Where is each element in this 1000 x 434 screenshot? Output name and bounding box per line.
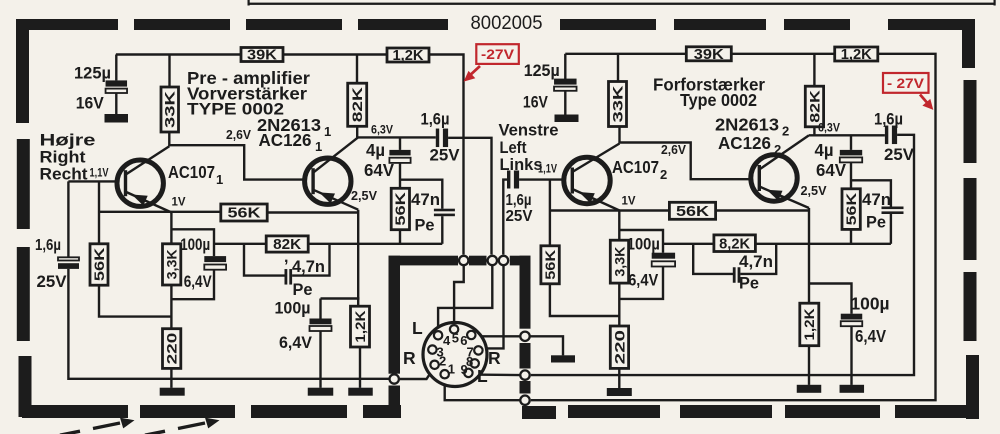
wire: rail to 82K vertical (right) <box>813 54 815 86</box>
wire: 125uF to ground (right) <box>564 91 566 115</box>
wire: pin 6 to feedthrough <box>476 335 520 337</box>
wire: 82K-h to emitter column (left) <box>308 243 359 245</box>
resistor 82K (left collector) <box>348 83 367 126</box>
wire: interstage coupling T3-T4 (right) <box>620 143 760 180</box>
resistor 220 (right) <box>610 326 628 368</box>
capacitor 100µ/6,4V (right mid) <box>652 253 675 267</box>
wire: node to 82K-h (left) <box>214 243 266 245</box>
wire: emitter column upper (left) <box>170 213 172 244</box>
resistor 220 (left) <box>163 329 181 369</box>
svg-text:R: R <box>488 348 501 368</box>
resistor 1,2K (left) <box>387 48 429 64</box>
wire: emitter rail T3 (right) <box>550 209 670 211</box>
wire: 47n branch (right) <box>851 180 891 206</box>
transistor AC107-1 <box>117 146 172 212</box>
svg-text:L: L <box>477 366 488 386</box>
svg-text:1,6µ: 1,6µ <box>506 192 532 209</box>
svg-text:4,7n: 4,7n <box>739 253 773 271</box>
DIN shield: right vertical bar <box>520 256 531 394</box>
svg-text:9: 9 <box>461 362 468 377</box>
wire: 33K to collector node <box>168 132 170 146</box>
svg-text:2,6V: 2,6V <box>226 128 252 142</box>
svg-text:33K: 33K <box>163 91 178 128</box>
capacitor 125µ/16V (left) <box>106 80 128 93</box>
svg-text:4µ: 4µ <box>815 140 834 160</box>
svg-text:1,2K: 1,2K <box>802 308 817 340</box>
wire: 1,2K to ground (left) <box>359 347 361 388</box>
transistor 2N2613/AC126-1 <box>305 137 359 209</box>
svg-text:AC126: AC126 <box>259 130 312 150</box>
svg-text:56K: 56K <box>393 192 408 226</box>
DIN shield: top edge <box>389 256 531 266</box>
svg-text:220: 220 <box>612 330 627 364</box>
wire: 220 to ground (left) <box>170 368 172 387</box>
svg-text:39K: 39K <box>694 47 725 63</box>
label 2N2613 (right) <box>715 115 789 139</box>
wire: 56K-T2 bottom (left) <box>399 230 401 244</box>
svg-text:1,6µ: 1,6µ <box>874 111 903 129</box>
wire: rail 1,2K to corner (right) <box>531 54 936 400</box>
power label -27V (left) <box>464 44 519 81</box>
svg-text:Venstre: Venstre <box>499 121 559 140</box>
feedthrough node right output <box>520 370 529 379</box>
svg-text:1,2K: 1,2K <box>393 48 425 64</box>
resistor 82K (right collector) <box>805 86 823 127</box>
svg-text:Type 0002: Type 0002 <box>680 90 757 110</box>
label AC126 (left) <box>259 130 323 154</box>
resistor 1,2K (left bottom) <box>351 306 370 347</box>
wire: 100µ tap upper (right) <box>619 230 663 253</box>
wire: 56K-T4 bottom (right) <box>850 229 852 243</box>
svg-text:8002005: 8002005 <box>471 12 543 34</box>
svg-text:16V: 16V <box>76 95 104 113</box>
annotation arrow 2 <box>145 418 220 434</box>
wire: 56K-h to T2 emitter (left) <box>267 211 358 213</box>
svg-text:4: 4 <box>443 333 451 348</box>
capacitor 1,6µ/25V input (right) <box>507 171 519 189</box>
svg-text:25V: 25V <box>506 208 534 225</box>
capacitor 100µ/6,4V output (left) <box>310 319 332 332</box>
wire: B to pin 4 <box>438 265 492 330</box>
svg-text:56K: 56K <box>676 204 710 220</box>
resistor 1,2K (right) <box>835 47 878 63</box>
shield border: bottom dashed edge <box>22 405 979 419</box>
wire: 4,7n loop (left) <box>244 244 285 276</box>
svg-text:1V: 1V <box>622 196 636 208</box>
wire: 82K-v to collector node (right) <box>813 127 815 136</box>
wire: 100µ output branch (left) <box>321 297 360 299</box>
svg-text:1: 1 <box>216 172 223 187</box>
svg-text:- 27V: - 27V <box>887 75 925 91</box>
svg-text:5: 5 <box>452 331 459 346</box>
resistor 56K (right T4) <box>842 189 860 230</box>
wire: T2 emitter column (left) <box>357 210 359 307</box>
wire: emitter column lower (right) <box>618 283 620 326</box>
svg-text:6,3V: 6,3V <box>371 125 393 137</box>
resistor 1,2K (right bottom) <box>800 303 819 346</box>
svg-text:Pe: Pe <box>415 217 435 235</box>
svg-text:Pe: Pe <box>739 275 759 293</box>
svg-text:1V: 1V <box>172 197 186 209</box>
svg-text:L: L <box>412 318 423 338</box>
resistor 3,3K (left emitter) <box>163 244 181 285</box>
svg-text:6,4V: 6,4V <box>184 273 212 291</box>
wire: A to pin 5 <box>454 265 464 324</box>
label AC107 (right) <box>612 157 667 182</box>
wire: C to pin 7 <box>484 265 504 348</box>
wire: base bias drop (left) <box>98 181 100 243</box>
svg-text:125µ: 125µ <box>74 65 111 83</box>
wire: emitter column lower (left) <box>170 285 172 329</box>
resistor 3,3K (right emitter) <box>610 240 628 283</box>
capacitor 47n (left) <box>434 209 455 217</box>
ground bar below 125µ (left) <box>105 114 129 123</box>
wire: 4,7n loop right (right) <box>740 244 776 274</box>
wire: 33K to collector node (right) <box>618 127 620 144</box>
resistor 56K (left base) <box>90 244 108 285</box>
svg-text:8,2K: 8,2K <box>719 236 751 252</box>
svg-text:2: 2 <box>660 167 667 182</box>
annotation arrow 1 <box>60 418 135 434</box>
svg-text:25V: 25V <box>37 273 67 291</box>
wire: 100µ output branch (right) <box>809 284 852 314</box>
capacitor 4,7n (right) <box>733 267 741 283</box>
wire: 56K to bias node (right) <box>550 284 619 316</box>
svg-text:1,6µ: 1,6µ <box>35 237 61 254</box>
wire: 1,2K to ground (right) <box>808 346 810 385</box>
feedthrough node A (-27V left) <box>459 256 468 265</box>
svg-text:56K: 56K <box>228 206 262 222</box>
svg-text:1: 1 <box>448 362 455 377</box>
wire: pin 9 to right output feedthrough <box>472 373 521 376</box>
wire: T4 emitter column (right) <box>808 208 810 303</box>
transistor 2N2613/AC126-2 <box>751 135 809 208</box>
svg-text:56K: 56K <box>844 192 859 225</box>
svg-text:39K: 39K <box>247 48 278 64</box>
wire: emitter node bottom rail (left) <box>360 243 443 245</box>
svg-text:1,1V: 1,1V <box>90 168 109 180</box>
ground bar below 220 (right) <box>607 388 632 396</box>
resistor 56K horizontal (left) <box>221 204 267 222</box>
svg-text:2,5V: 2,5V <box>351 189 378 203</box>
svg-text:Pe: Pe <box>866 214 886 232</box>
svg-text:100µ: 100µ <box>627 236 660 254</box>
feedthrough node B (left output) <box>488 256 497 265</box>
svg-text:-27V: -27V <box>481 46 515 62</box>
ground bar near DIN <box>551 355 575 362</box>
DIN pins 1-9 <box>428 325 482 378</box>
wire: output cap to drop (left) <box>448 138 491 255</box>
wire: input to T1 base (left) <box>68 180 125 182</box>
wire: 220 to ground (right) <box>618 368 620 388</box>
ground bar below 100µ (right) <box>840 385 865 393</box>
wire: 56K to bias node (left) <box>99 285 171 316</box>
wire: interstage coupling T1-T2 (left) <box>169 145 313 179</box>
svg-text:2,5V: 2,5V <box>801 184 828 198</box>
wire: 4µ tap (left) <box>399 137 401 150</box>
capacitor 1,6µ/25V output (left) <box>436 129 448 148</box>
wire: rail 1,2K to corner and -27V drop <box>429 55 464 255</box>
wire: 4,7n loop (right) <box>693 244 733 274</box>
wire: input cap left drop (right) <box>503 180 507 255</box>
capacitor 100µ/6,4V output (right) <box>841 314 863 327</box>
wire: input cap to T3 base (right) <box>519 178 572 180</box>
wire: emitter node bottom rail (right) <box>809 243 891 245</box>
wire: 100µ bottom to column (left) <box>171 270 214 299</box>
wire: emitter rail T1 (left) <box>99 211 221 213</box>
svg-text:1,6µ: 1,6µ <box>421 111 450 129</box>
DIN pin numbers <box>437 331 474 377</box>
capacitor 4,7n (left) <box>285 269 293 285</box>
feedthrough node -27V return <box>520 396 529 405</box>
transistor AC107-2 <box>564 144 620 211</box>
wire: 125uF tap (right) <box>564 54 566 79</box>
svg-text:1,2K: 1,2K <box>841 47 873 63</box>
ground bar below 1,2K (left) <box>348 388 373 396</box>
feedthrough node R input <box>390 374 399 383</box>
svg-text:Pe: Pe <box>293 281 313 299</box>
top reference line (cropped box above) <box>248 0 996 6</box>
ground bar below 220 (left) <box>160 388 185 396</box>
wire: 100µ output top (left) <box>319 299 321 319</box>
svg-text:25V: 25V <box>884 146 914 164</box>
wire: input cap to R line (left) <box>68 269 389 379</box>
svg-text:3,3K: 3,3K <box>612 246 627 276</box>
wire: 100µ bottom to column (right) <box>619 267 663 299</box>
wire: left -27V top rail <box>116 53 241 55</box>
resistor 56K horizontal (right) <box>669 202 715 220</box>
wire: 82K-v to collector node (left) <box>356 126 358 137</box>
wire: 4µ tap (right) <box>850 135 852 150</box>
svg-text:1: 1 <box>315 139 322 154</box>
svg-text:220: 220 <box>165 333 180 365</box>
svg-text:AC126: AC126 <box>718 133 771 153</box>
wire: feedthrough to DIN ground <box>530 336 563 355</box>
shield border: right dashed edge <box>962 19 979 419</box>
wire: emitter column upper (right) <box>618 211 620 241</box>
svg-text:3,3K: 3,3K <box>165 249 180 279</box>
svg-text:AC107: AC107 <box>168 162 215 182</box>
svg-text:64V: 64V <box>364 160 394 180</box>
svg-text:100µ: 100µ <box>275 300 311 318</box>
svg-text:56K: 56K <box>92 247 107 281</box>
ground bar below 100µ (left) <box>308 388 334 396</box>
capacitor 125µ/16V (right) <box>554 79 577 91</box>
svg-text:Links: Links <box>500 155 543 174</box>
wire: 8,2K-h to emitter column (right) <box>755 243 809 245</box>
capacitor 4µ/64V (left) <box>389 150 410 163</box>
resistor 33K (left top) <box>161 87 179 132</box>
wire: rail to 33K (right) <box>617 54 619 82</box>
capacitor 100µ/6,4V (left mid) <box>204 256 226 270</box>
label AC126 (right) <box>718 133 781 157</box>
wire: 100µ tap upper (left) <box>171 229 214 256</box>
svg-text:2,6V: 2,6V <box>661 143 687 157</box>
resistor 56K (right base) <box>541 246 559 284</box>
wire: rail to 82K vertical (left) <box>356 55 358 84</box>
capacitor 47n (right) <box>882 207 904 215</box>
svg-text:64V: 64V <box>816 160 846 180</box>
resistor 39K (right) <box>686 47 731 63</box>
capacitor 4µ/64V (right) <box>840 150 862 163</box>
wire: 4,7n loop right (left) <box>292 244 329 276</box>
svg-text:AC107: AC107 <box>612 157 659 177</box>
resistor 33K (right top) <box>609 82 627 127</box>
wire: 47n bottom (left) <box>441 216 443 244</box>
svg-text:47n: 47n <box>862 191 891 209</box>
label AC107 (left) <box>168 162 223 187</box>
wire: rail 39K to 1,2K (right) <box>731 53 834 55</box>
wire: 125uF to ground (left) <box>115 93 117 115</box>
svg-text:2: 2 <box>782 124 789 139</box>
wire: 100µ output to ground (right) <box>850 326 852 385</box>
feedthrough node C (right input) <box>499 256 508 265</box>
resistor 56K (left T2) <box>391 188 409 229</box>
svg-text:100µ: 100µ <box>180 236 210 254</box>
wire: 47n branch (left) <box>400 180 442 209</box>
svg-text:25V: 25V <box>430 147 460 165</box>
svg-text:,: , <box>284 249 288 266</box>
wire: R input to pin 2 <box>399 369 433 379</box>
svg-text:82K: 82K <box>350 87 365 122</box>
svg-text:2: 2 <box>439 354 446 369</box>
capacitor 1,6µ/25V input (left) <box>58 257 79 269</box>
svg-text:16V: 16V <box>523 94 548 112</box>
wire: 4µ to 56K (right) <box>850 162 852 188</box>
svg-text:6,4V: 6,4V <box>279 334 312 352</box>
wire: input drop to coupling cap (left) <box>67 181 69 257</box>
shield border: left dashed edge <box>16 19 32 417</box>
svg-text:6,4V: 6,4V <box>628 272 658 290</box>
wire: rail to 33K (left) <box>168 55 170 88</box>
ground bar below 125µ (right) <box>555 115 579 123</box>
wire: collector node to output cap (left) <box>357 136 436 138</box>
ground bar below 1,2K (right) <box>797 385 822 393</box>
wire: 4µ to 56K (left) <box>399 163 401 188</box>
capacitor 1,6µ/25V output (right) <box>885 126 897 145</box>
svg-text:125µ: 125µ <box>524 62 560 80</box>
wire: right -27V top rail <box>565 53 686 55</box>
svg-text:4µ: 4µ <box>366 140 385 160</box>
svg-text:1,2K: 1,2K <box>353 310 368 342</box>
wire: rail 39K to 1,2K <box>283 53 387 55</box>
svg-text:2N2613: 2N2613 <box>715 115 779 135</box>
resistor 8,2K horizontal (right) <box>714 235 756 253</box>
resistor 39K (left) <box>241 48 283 64</box>
wire: collector node to output cap (right) <box>809 134 885 136</box>
wire: output cap to right drop (right) <box>531 135 914 375</box>
wire: 56K-h to T4 emitter (right) <box>716 209 809 211</box>
power label -27V (right) <box>883 73 933 110</box>
svg-text:47n: 47n <box>411 191 440 209</box>
svg-text:56K: 56K <box>543 249 558 279</box>
svg-text:100µ: 100µ <box>851 294 890 314</box>
svg-text:82K: 82K <box>807 90 822 123</box>
svg-text:R: R <box>403 348 416 368</box>
svg-text:6,3V: 6,3V <box>818 123 840 135</box>
wire: base bias drop (right) <box>549 180 551 246</box>
feedthrough node L out right <box>520 332 529 341</box>
resistor 82K horizontal (left) <box>266 236 308 253</box>
wire: 47n bottom (right) <box>890 214 892 244</box>
wire: pin 1 to -27V return <box>445 379 521 400</box>
wire: 125uF tap (left) <box>115 55 117 81</box>
svg-text:6,4V: 6,4V <box>855 326 886 346</box>
svg-text:1,1V: 1,1V <box>538 164 557 176</box>
svg-text:4,7n: 4,7n <box>292 258 325 276</box>
shield border: top dashed edge <box>16 19 975 30</box>
label 2N2613 (left) <box>257 115 331 139</box>
wire: 100µ output to ground (left) <box>319 331 321 388</box>
svg-text:33K: 33K <box>610 85 625 122</box>
svg-text:1: 1 <box>324 124 331 139</box>
DIN connector circle <box>423 323 487 387</box>
wire: node to 8,2K-h (right) <box>663 243 714 245</box>
DIN shield: left vertical bar <box>389 256 401 411</box>
